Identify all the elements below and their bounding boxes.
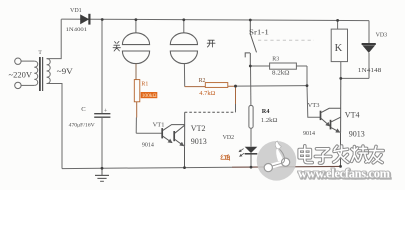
svg-text:8.2kΩ: 8.2kΩ: [272, 71, 290, 77]
transformer T: [9, 50, 73, 91]
node switch bottom: [249, 65, 252, 68]
switch Sr1-1: [245, 20, 269, 66]
wire VT1 base: [136, 132, 162, 134]
svg-text:~9V: ~9V: [57, 67, 73, 76]
wire R2 junction down: [235, 86, 237, 104]
svg-text:VD2: VD2: [223, 135, 235, 141]
diode VD3 1N4148: [358, 21, 387, 79]
svg-text:C: C: [81, 106, 86, 113]
wire bottom return rail: [62, 167, 232, 168]
node LED bottom: [250, 166, 253, 169]
svg-text:9014: 9014: [303, 131, 315, 137]
node probe2 top: [182, 18, 185, 21]
svg-text:9013: 9013: [191, 137, 207, 146]
svg-text:R3: R3: [272, 57, 279, 63]
node K VD3: [339, 77, 342, 80]
svg-text:9014: 9014: [142, 143, 154, 149]
svg-text:R2: R2: [199, 78, 206, 84]
terminal circle top: [15, 58, 21, 64]
svg-text:www.elecfans.com: www.elecfans.com: [298, 167, 391, 181]
wire transformer secondary top to diode: [47, 19, 62, 58]
svg-text:+: +: [104, 108, 108, 115]
relay K: [331, 20, 347, 78]
svg-text:VT2: VT2: [191, 124, 206, 133]
svg-text:VT1: VT1: [153, 122, 165, 129]
wire transformer secondary bottom return: [47, 84, 62, 169]
svg-text:R4: R4: [262, 108, 271, 115]
svg-text:1N4001: 1N4001: [66, 27, 88, 33]
resistor R3 8.2k: [250, 57, 307, 86]
node VT2 emitter: [183, 166, 186, 169]
svg-text:~220V: ~220V: [9, 71, 33, 80]
terminal circle bottom: [15, 82, 21, 88]
svg-text:VD1: VD1: [70, 8, 82, 14]
transistor VT1 9014: [142, 122, 185, 149]
node cap bottom: [101, 167, 104, 170]
svg-text:100kΩ: 100kΩ: [142, 93, 157, 99]
watermark text www.elecfans.com: [298, 167, 391, 182]
wire primary leads: [21, 60, 34, 62]
transformer core: [39, 57, 41, 91]
primary winding: [34, 61, 37, 85]
node VT4 emitter: [339, 165, 342, 168]
wire R3 node down to VT3 base: [307, 86, 320, 118]
svg-text:4.7kΩ: 4.7kΩ: [199, 90, 215, 97]
svg-text:R1: R1: [141, 82, 148, 88]
wire top positive rail: [61, 19, 369, 21]
wire K bottom to VD3: [341, 77, 369, 79]
node cap top: [101, 18, 104, 21]
transistor VT2 9013: [174, 112, 207, 167]
LED VD2 red: [223, 135, 258, 167]
watermark logo circle: [257, 141, 297, 181]
svg-text:VD3: VD3: [376, 33, 388, 39]
resistor R4 1.2k: [249, 66, 278, 147]
resistor R2 4.7k: [185, 78, 236, 97]
watermark text 电子发烧友: [299, 146, 383, 163]
node probe1 top: [135, 18, 138, 21]
node R2 right: [234, 85, 237, 88]
label 关 (close): [113, 41, 120, 51]
ground: [95, 168, 109, 181]
diode VD1: [66, 8, 90, 33]
label 开 (open): [207, 40, 215, 47]
svg-text:VT3: VT3: [308, 102, 320, 109]
svg-text:T: T: [38, 50, 42, 56]
svg-text:Sr1-1: Sr1-1: [249, 28, 269, 37]
transistor VT4 9013: [331, 78, 365, 166]
probe electrode (lower start) right: [170, 20, 197, 87]
secondary winding: [47, 59, 51, 84]
wire collector node dashed to R2 junction: [185, 111, 236, 113]
svg-text:1.2kΩ: 1.2kΩ: [261, 117, 278, 124]
label 红色 (red): [221, 155, 230, 161]
svg-text:K: K: [335, 43, 343, 54]
node switch top: [249, 19, 252, 22]
capacitor C 470uF/16V: [69, 20, 111, 169]
dashed linkage line: [258, 39, 314, 41]
wire R2 junction to R3 bottom node: [236, 85, 308, 88]
resistor R1 100k: [134, 80, 157, 134]
svg-text:1N4148: 1N4148: [358, 68, 382, 74]
svg-text:470μF/16V: 470μF/16V: [69, 122, 96, 128]
transistor VT3 9014: [303, 102, 341, 137]
svg-text:VT4: VT4: [345, 110, 360, 119]
node relay top: [336, 19, 339, 22]
svg-text:9013: 9013: [349, 129, 365, 138]
node R3 bottom: [306, 84, 309, 87]
probe electrode (upper stop) left: [122, 19, 149, 79]
